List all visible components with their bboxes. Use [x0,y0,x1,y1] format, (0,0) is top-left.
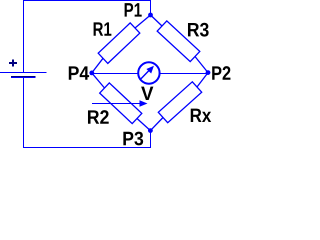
node P1 label [125,3,142,16]
node P4 junction dot [89,71,94,76]
node P3 label [123,132,143,146]
voltmeter V [138,62,159,83]
node P4 label [69,66,89,79]
node P3 junction dot [148,128,153,133]
label R3 [188,23,209,37]
label Rx [191,109,211,122]
wire bottom: battery to P3 [23,147,151,149]
node P1 junction dot [148,13,153,18]
label V [141,87,153,100]
R2 wiper arrow (variable resistor) [92,100,148,106]
label R2 [88,110,109,124]
node P2 junction dot [206,70,211,75]
wire left: top corner down to battery [23,0,25,73]
resistor R3 [151,15,209,73]
resistor Rx [150,73,208,131]
resistor R2 [92,73,151,131]
wire left: battery negative down to bottom [23,78,25,148]
wire top: battery positive to P1 [23,1,151,16]
battery B1 [0,73,47,78]
resistor R1 [92,15,151,73]
wire: P3 down to bottom wire [150,131,152,148]
battery polarity label + [9,60,17,67]
wire: P4 to P2 through voltmeter [92,73,208,75]
label R1 [94,22,112,35]
node P2 label [212,66,230,80]
